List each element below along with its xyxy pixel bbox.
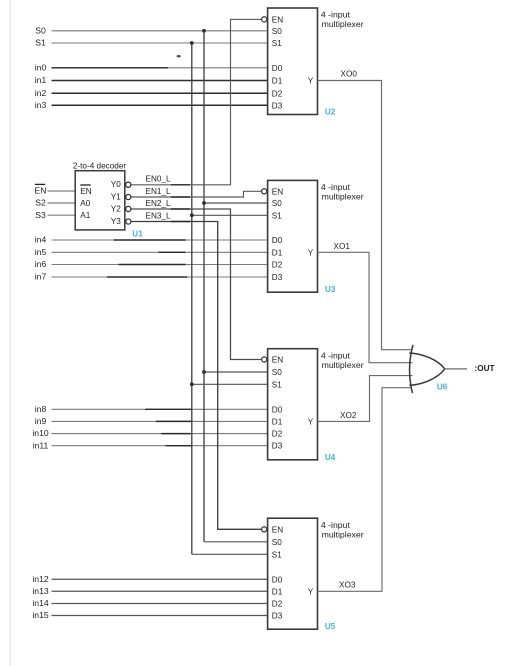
svg-text:EN: EN — [272, 525, 283, 534]
svg-text:in15: in15 — [32, 610, 48, 620]
svg-text:D3: D3 — [272, 612, 283, 621]
svg-text:Y: Y — [308, 417, 314, 426]
svg-text:D0: D0 — [272, 575, 283, 584]
svg-text:U2: U2 — [325, 108, 336, 117]
svg-text:4 -input: 4 -input — [321, 350, 351, 360]
svg-text:in4: in4 — [35, 235, 47, 245]
svg-text:in6: in6 — [35, 259, 47, 269]
svg-text:D2: D2 — [272, 430, 283, 439]
svg-text:EN: EN — [272, 15, 283, 24]
svg-text:S0: S0 — [35, 25, 46, 35]
svg-text:2-to-4 decoder: 2-to-4 decoder — [73, 161, 127, 170]
svg-text:D2: D2 — [272, 261, 283, 270]
svg-text:in14: in14 — [32, 598, 48, 608]
svg-text:D3: D3 — [272, 273, 283, 282]
svg-text:S3: S3 — [35, 210, 46, 220]
svg-text:in12: in12 — [32, 574, 48, 584]
svg-text:S0: S0 — [272, 199, 282, 208]
svg-text:Y: Y — [308, 248, 314, 257]
svg-text:A1: A1 — [80, 211, 90, 220]
svg-text:XO1: XO1 — [334, 242, 351, 251]
svg-text:D0: D0 — [272, 64, 283, 73]
svg-text:XO0: XO0 — [341, 69, 358, 78]
svg-text:U6: U6 — [437, 382, 448, 391]
svg-text:D1: D1 — [272, 417, 283, 426]
svg-text:D1: D1 — [272, 77, 283, 86]
svg-text:EN: EN — [80, 187, 91, 196]
svg-text:S1: S1 — [272, 39, 282, 48]
svg-text:EN0_L: EN0_L — [146, 174, 171, 183]
svg-text:4 -input: 4 -input — [321, 10, 351, 20]
svg-text:D0: D0 — [272, 236, 283, 245]
svg-text:EN2_L: EN2_L — [146, 199, 171, 208]
svg-text:EN: EN — [272, 356, 283, 365]
svg-text:EN: EN — [272, 187, 283, 196]
svg-text:D2: D2 — [272, 600, 283, 609]
svg-text:Y: Y — [308, 77, 314, 86]
svg-text:XO3: XO3 — [339, 580, 356, 589]
svg-text:S1: S1 — [272, 550, 282, 559]
svg-text:in2: in2 — [35, 88, 47, 98]
svg-text:Y: Y — [308, 587, 314, 596]
svg-text:multiplexer: multiplexer — [322, 192, 364, 202]
svg-text:S1: S1 — [272, 211, 282, 220]
svg-text:multiplexer: multiplexer — [322, 529, 364, 539]
svg-text:multiplexer: multiplexer — [322, 19, 364, 29]
svg-text:Y0: Y0 — [111, 180, 121, 189]
svg-text:4 -input: 4 -input — [321, 182, 351, 192]
svg-text:Y3: Y3 — [111, 217, 121, 226]
svg-text:Y1: Y1 — [111, 192, 121, 201]
svg-text:in9: in9 — [35, 416, 47, 426]
svg-text:EN: EN — [35, 186, 47, 196]
svg-text:D3: D3 — [272, 442, 283, 451]
svg-text:S0: S0 — [272, 538, 282, 547]
svg-text:S1: S1 — [35, 38, 46, 48]
svg-text:in7: in7 — [35, 272, 47, 282]
svg-text:in5: in5 — [35, 247, 47, 257]
svg-text:U4: U4 — [325, 453, 336, 462]
svg-text:U5: U5 — [325, 622, 336, 631]
svg-text:in13: in13 — [32, 586, 48, 596]
svg-text:U3: U3 — [325, 285, 336, 294]
svg-text:D3: D3 — [272, 101, 283, 110]
svg-text:in3: in3 — [35, 100, 47, 110]
svg-text:D1: D1 — [272, 248, 283, 257]
svg-text::OUT: :OUT — [475, 364, 495, 373]
svg-text:EN1_L: EN1_L — [146, 187, 171, 196]
svg-text:S2: S2 — [35, 198, 46, 208]
svg-text:XO2: XO2 — [340, 411, 357, 420]
svg-text:S1: S1 — [272, 380, 282, 389]
svg-text:EN3_L: EN3_L — [146, 211, 171, 220]
svg-text:multiplexer: multiplexer — [322, 360, 364, 370]
svg-text:in11: in11 — [33, 440, 49, 450]
svg-text:in1: in1 — [35, 75, 47, 85]
svg-text:in10: in10 — [32, 428, 48, 438]
svg-text:in8: in8 — [35, 404, 47, 414]
svg-text:A0: A0 — [80, 199, 90, 208]
svg-text:D1: D1 — [272, 587, 283, 596]
svg-text:in0: in0 — [35, 62, 47, 72]
svg-text:Y2: Y2 — [111, 204, 121, 213]
svg-text:S0: S0 — [272, 368, 282, 377]
svg-text:D2: D2 — [272, 89, 283, 98]
svg-text:4 -input: 4 -input — [321, 520, 351, 530]
svg-text:S0: S0 — [272, 27, 282, 36]
svg-text:D0: D0 — [272, 405, 283, 414]
svg-text:U1: U1 — [132, 229, 143, 238]
